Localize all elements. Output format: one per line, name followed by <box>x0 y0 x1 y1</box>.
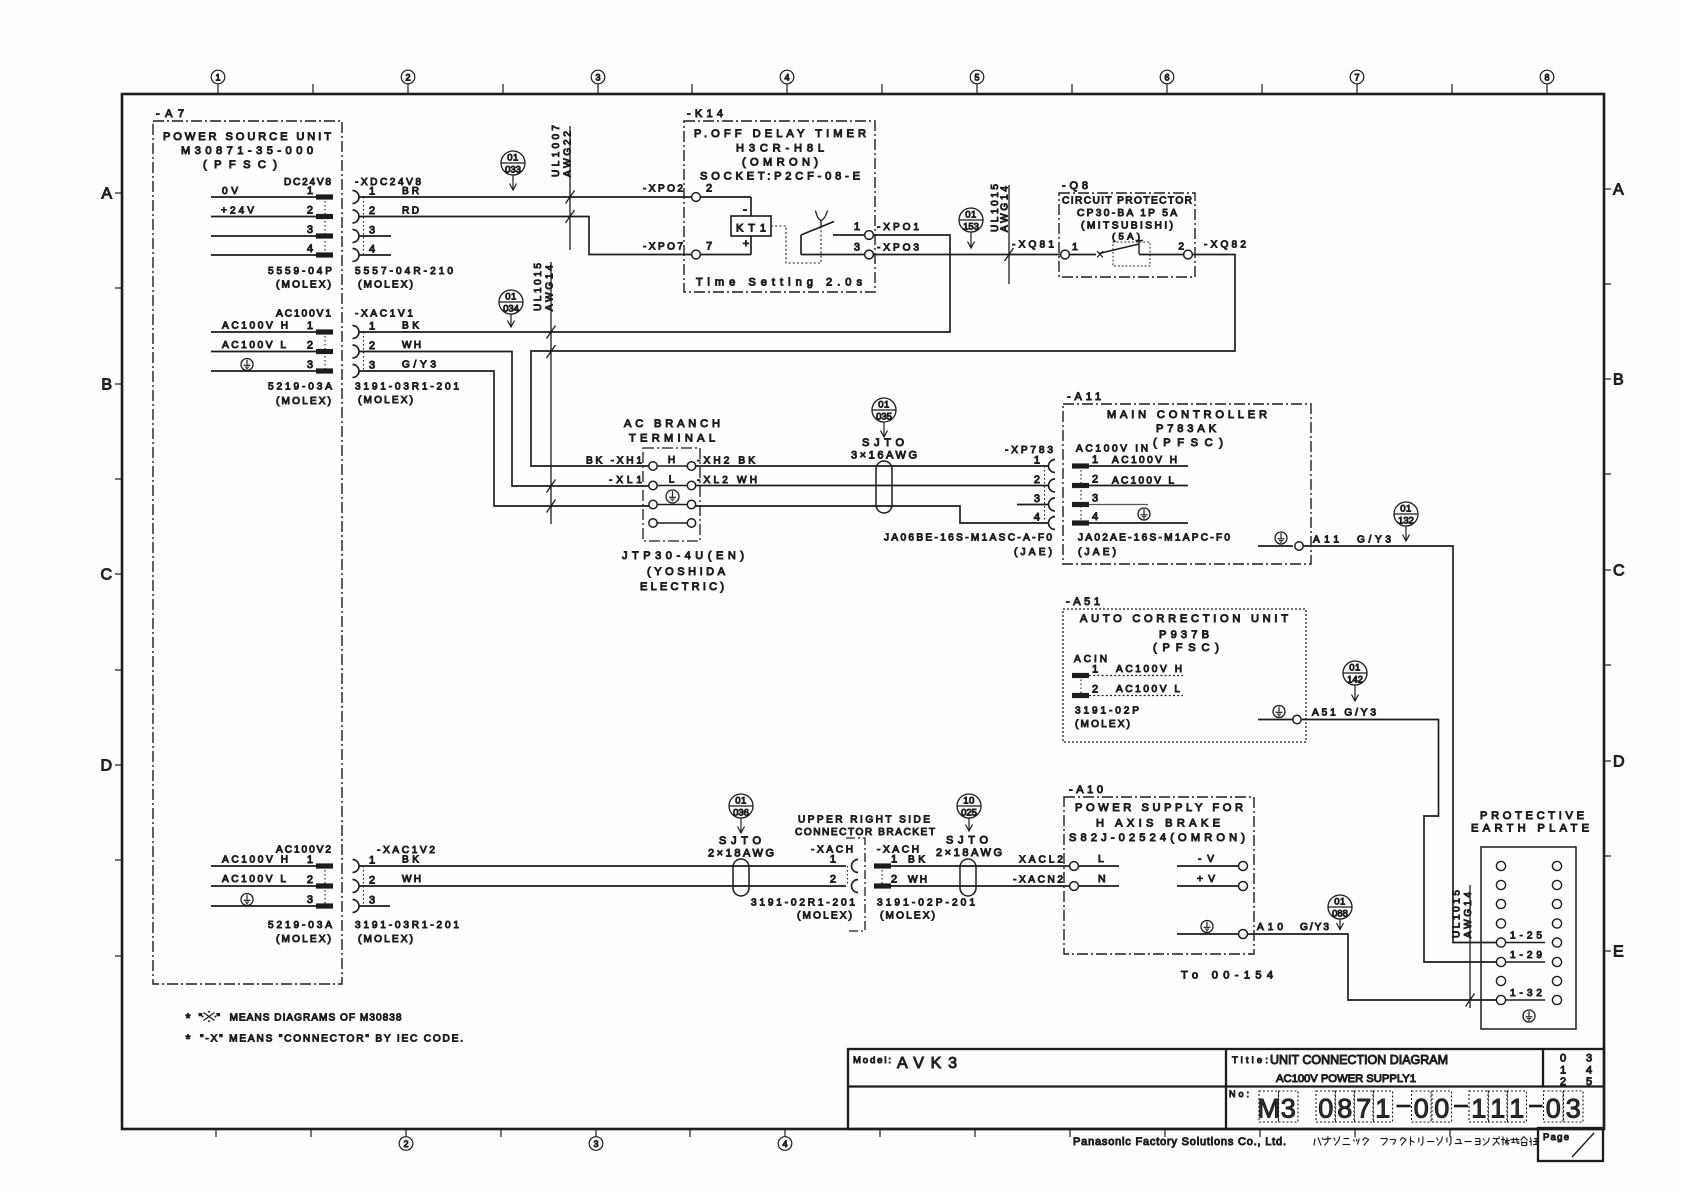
svg-text:-XQ81: -XQ81 <box>1012 240 1054 251</box>
K14 pin 2 terminal (-XPO2) <box>643 183 712 202</box>
unit A51 AUTO CORRECTION UNIT box <box>1063 596 1306 742</box>
svg-text:CIRCUIT PROTECTOR: CIRCUIT PROTECTOR <box>1062 196 1192 207</box>
svg-text:G/Y3: G/Y3 <box>402 360 436 371</box>
svg-text:AC100V POWER SUPPLY1: AC100V POWER SUPPLY1 <box>1276 1073 1416 1085</box>
svg-text:1: 1 <box>307 320 313 332</box>
top border zone tick marks and circled column numbers <box>211 70 1554 94</box>
svg-text:3: 3 <box>369 895 375 907</box>
Q8 terminal 2 (-XQ82) <box>1178 240 1246 259</box>
svg-text:01: 01 <box>1349 663 1361 674</box>
svg-text:SOCKET:P2CF-08-E: SOCKET:P2CF-08-E <box>700 171 860 183</box>
svg-text:025: 025 <box>961 808 977 819</box>
earth plate terminal 1-32 <box>1506 988 1545 1000</box>
wire XACL2 from -XACH pin1 to A10 L <box>891 865 1069 867</box>
svg-text:CP30-BA 1P 5A: CP30-BA 1P 5A <box>1077 208 1177 219</box>
wire A10 G/Y3 to earth plate 1-32 <box>1248 934 1497 1000</box>
connector AC100V2 (A7 side, 5219-03A MOLEX) <box>211 845 333 946</box>
svg-text:2: 2 <box>830 874 836 886</box>
svg-text:UNIT CONNECTION DIAGRAM: UNIT CONNECTION DIAGRAM <box>1270 1053 1448 1067</box>
svg-text:0: 0 <box>1546 1094 1561 1124</box>
svg-text:2: 2 <box>369 205 375 217</box>
ground symbol on A11 pin 4 <box>1138 508 1150 520</box>
reference balloon 01/035 <box>872 398 896 437</box>
svg-text:*: * <box>186 1032 191 1047</box>
svg-text:-A7: -A7 <box>156 108 186 120</box>
A11 connector JA02AE-16S-M1APC-F0 pins <box>1072 454 1230 558</box>
svg-text:MEANS DIAGRAMS OF M30838: MEANS DIAGRAMS OF M30838 <box>230 1013 402 1024</box>
svg-text:2: 2 <box>405 73 410 83</box>
svg-text:D: D <box>100 758 112 775</box>
svg-text:B: B <box>1613 372 1624 389</box>
svg-text:(MOLEX): (MOLEX) <box>276 396 331 407</box>
unit A10 POWER SUPPLY FOR H AXIS BRAKE box <box>1064 784 1254 954</box>
svg-text:01: 01 <box>735 796 747 807</box>
connector AC100V1 part labels <box>268 382 332 408</box>
cable SJTO 3x16AWG oval <box>851 437 917 513</box>
svg-text:AC100V H: AC100V H <box>1116 664 1182 675</box>
svg-text:10: 10 <box>963 796 975 807</box>
reference balloon 01/088 <box>1328 895 1352 930</box>
connector -XACH female (bracket side, 3191-02R1-201 MOLEX) <box>751 845 858 922</box>
svg-text:1: 1 <box>369 321 375 333</box>
reference balloon 01/036 <box>729 794 753 833</box>
svg-text:3: 3 <box>369 360 375 372</box>
svg-text:2: 2 <box>369 875 375 887</box>
svg-text:-XPO1: -XPO1 <box>877 222 919 233</box>
company name <box>1073 1136 1286 1148</box>
A10 input terminal L (XACL2) <box>1070 853 1119 870</box>
svg-text:01: 01 <box>1400 504 1412 515</box>
reference balloon 01/033 <box>501 151 525 190</box>
svg-text:AC100V1: AC100V1 <box>276 309 331 320</box>
unit A7 POWER SOURCE UNIT box <box>153 108 342 984</box>
wire WH from -XAC1V2 pin2 to bracket -XACH pin2 <box>359 885 846 887</box>
svg-text:4: 4 <box>1034 512 1040 524</box>
title block <box>848 1049 1604 1129</box>
svg-text:1: 1 <box>1375 1094 1390 1124</box>
svg-text:H: H <box>668 455 675 466</box>
svg-text:2: 2 <box>1178 242 1184 253</box>
svg-text:8: 8 <box>1337 1094 1352 1124</box>
svg-text:033: 033 <box>505 165 521 176</box>
svg-text:AC100V L: AC100V L <box>1116 684 1180 695</box>
reference balloon 01/153 <box>959 208 983 248</box>
svg-text:2: 2 <box>307 340 313 352</box>
svg-text:2: 2 <box>706 183 712 195</box>
KT1 actuating dotted link <box>771 226 821 263</box>
connector -XAC1V2 (harness side, 3191-03R1-201 MOLEX) <box>353 845 460 945</box>
wire return from -XQ82 to branch terminal -XH1 <box>531 255 1235 467</box>
svg-text:B: B <box>101 377 112 394</box>
svg-text:M: M <box>1258 1094 1281 1124</box>
svg-text:C: C <box>1613 563 1625 580</box>
reference balloon 01/034 <box>499 290 523 327</box>
svg-text:To 00-154: To 00-154 <box>1181 970 1273 982</box>
svg-text:EARTH PLATE: EARTH PLATE <box>1471 823 1589 835</box>
A10 output terminal -V <box>1177 854 1248 871</box>
svg-text:7: 7 <box>706 241 712 253</box>
svg-text:5: 5 <box>1586 1076 1592 1088</box>
svg-text:3: 3 <box>1092 493 1098 505</box>
reference balloon 10/025 <box>957 794 981 831</box>
svg-text:AC100V L: AC100V L <box>1112 476 1174 487</box>
unit A11 MAIN CONTROLLER box <box>1063 391 1311 564</box>
svg-text:4: 4 <box>307 243 313 255</box>
cable leader UL1015 AWG14 (top) <box>990 184 1014 284</box>
svg-text:2: 2 <box>307 874 313 886</box>
svg-text:2: 2 <box>369 340 375 352</box>
svg-text:AC100V H: AC100V H <box>222 855 288 866</box>
cable leader UL1015 AWG14 (earth plate) <box>1452 885 1475 1008</box>
svg-text:1: 1 <box>215 73 220 83</box>
svg-text:(OMRON): (OMRON) <box>742 157 818 169</box>
svg-text:WH: WH <box>908 875 927 886</box>
earth plate terminal 1-29 <box>1506 950 1545 962</box>
svg-text:E: E <box>1613 944 1624 961</box>
svg-text:3: 3 <box>1586 1053 1592 1065</box>
svg-text:3: 3 <box>307 894 313 906</box>
svg-text:AC100V L: AC100V L <box>222 874 286 885</box>
K14 pin 3 terminal (-XPO3) <box>854 242 920 259</box>
svg-text:1: 1 <box>1034 455 1040 467</box>
svg-text:1: 1 <box>307 854 313 866</box>
svg-text:A10: A10 <box>1257 922 1283 933</box>
drawing frame border <box>122 94 1604 1129</box>
ground symbol on AC100V1 pin 3 <box>241 359 253 371</box>
wire -XL2 WH from branch terminal to -XP783 pin2 <box>696 485 1049 487</box>
svg-text:G/Y3: G/Y3 <box>1300 922 1329 933</box>
node label -XACN2 <box>1013 875 1063 886</box>
svg-text:1: 1 <box>830 854 836 866</box>
reference balloon 01/142 <box>1343 661 1367 701</box>
svg-text:Panasonic Factory Solutions Co: Panasonic Factory Solutions Co., Ltd. <box>1073 1136 1286 1148</box>
ground symbol in branch terminal <box>666 490 679 503</box>
A11 protective earth pigtail terminal <box>1258 532 1391 550</box>
svg-text:3: 3 <box>369 225 375 237</box>
svg-text:1: 1 <box>369 855 375 867</box>
right border row letters A-E with ticks <box>1604 182 1625 961</box>
title block drawing number cell <box>1229 1089 1583 1124</box>
svg-text:AC100V L: AC100V L <box>222 340 286 351</box>
ground symbol on AC100V2 pin 3 <box>241 894 253 906</box>
note: asterisk legends <box>186 1011 402 1026</box>
svg-text:153: 153 <box>963 222 979 233</box>
wire A11 G/Y3 to earth plate 1-25 <box>1303 546 1497 943</box>
wire -XACN2 from -XACH pin2 to A10 N <box>891 885 1069 887</box>
svg-text:-XQ82: -XQ82 <box>1204 240 1246 251</box>
svg-text:XACL2: XACL2 <box>1019 855 1063 866</box>
connector -XP783 (JA06BE-16S-M1ASC-A-F0 JAE) <box>884 445 1055 558</box>
title block revision cell digits <box>1560 1053 1592 1089</box>
svg-text:CONNECTOR BRACKET: CONNECTOR BRACKET <box>795 827 935 838</box>
svg-text:142: 142 <box>1347 675 1363 686</box>
svg-text:POWER SUPPLY FOR: POWER SUPPLY FOR <box>1075 802 1243 814</box>
svg-text:AC100V H: AC100V H <box>222 321 288 332</box>
cable leader UL1015 AWG14 (left) <box>533 262 556 524</box>
svg-text:-A10: -A10 <box>1069 784 1105 796</box>
reference balloon 01/132 <box>1394 502 1418 541</box>
svg-text:SJTO: SJTO <box>862 437 906 449</box>
svg-text:4: 4 <box>1586 1065 1592 1077</box>
UPPER RIGHT SIDE CONNECTOR BRACKET boundary <box>795 815 935 932</box>
svg-text:2: 2 <box>403 1139 408 1149</box>
svg-text:3: 3 <box>593 1139 598 1149</box>
svg-text:2: 2 <box>1092 474 1098 486</box>
svg-text:2: 2 <box>1092 684 1098 696</box>
svg-text:1: 1 <box>1092 664 1098 676</box>
svg-text:-XPO3: -XPO3 <box>877 243 919 254</box>
svg-text:1: 1 <box>1560 1065 1566 1077</box>
svg-text:3: 3 <box>1281 1094 1296 1124</box>
connector -XAC1V1 (harness side, 3191-03R1-201 MOLEX) <box>353 309 460 407</box>
svg-text:": " <box>217 1013 221 1024</box>
svg-text:3: 3 <box>595 73 600 83</box>
wire -XH2 BK from branch terminal to -XP783 pin1 <box>696 465 1049 467</box>
connector -XACH male (3191-02P-201 MOLEX) <box>874 845 975 922</box>
svg-text:01: 01 <box>1334 897 1346 908</box>
svg-text:+: + <box>743 238 749 250</box>
svg-text:(MOLEX): (MOLEX) <box>276 280 331 291</box>
left border row letters A-D with ticks <box>100 186 122 957</box>
svg-text:1: 1 <box>1092 454 1098 466</box>
svg-text:1-32: 1-32 <box>1510 988 1542 999</box>
cable SJTO 2x18AWG oval (right) <box>936 835 1002 897</box>
svg-text:0: 0 <box>1318 1094 1333 1124</box>
svg-text:Time Setting 2.0s: Time Setting 2.0s <box>696 277 862 289</box>
svg-text:01: 01 <box>878 400 890 411</box>
svg-text:3: 3 <box>1034 493 1040 505</box>
svg-text:-A11: -A11 <box>1067 391 1103 403</box>
svg-text:2: 2 <box>1560 1076 1566 1088</box>
svg-text:01: 01 <box>505 292 517 303</box>
svg-text:N: N <box>1098 873 1106 885</box>
svg-text:6: 6 <box>1164 73 1169 83</box>
cable SJTO 2x18AWG oval (left) <box>708 835 774 896</box>
svg-text:L: L <box>1098 853 1104 865</box>
svg-text:0: 0 <box>1414 1094 1429 1124</box>
timer coil KT1 <box>701 197 771 255</box>
svg-text:No:: No: <box>1229 1089 1249 1099</box>
node label XACL2 <box>1019 855 1063 866</box>
svg-text:0: 0 <box>1560 1053 1566 1065</box>
svg-text:G/Y3: G/Y3 <box>1357 535 1391 546</box>
wire WH AC100V L from -XAC1V1 pin2 to branch terminal -XL1 <box>359 352 649 487</box>
wire A51 G/Y3 to earth plate 1-29 <box>1302 720 1497 963</box>
title block title cell <box>1232 1053 1448 1085</box>
svg-text:": " <box>199 1013 203 1024</box>
node label -XL1 <box>609 475 642 486</box>
svg-text:8: 8 <box>1544 73 1549 83</box>
svg-text:2: 2 <box>1034 474 1040 486</box>
PROTECTIVE EARTH PLATE <box>1471 810 1589 1029</box>
svg-text:AC100V IN: AC100V IN <box>1076 444 1148 455</box>
svg-text:01: 01 <box>507 153 519 164</box>
svg-text:132: 132 <box>1398 516 1414 527</box>
svg-text:ELECTRIC): ELECTRIC) <box>640 581 724 593</box>
A51 protective earth pigtail terminal <box>1258 706 1376 724</box>
relay K14 P.OFF DELAY TIMER box <box>684 108 875 292</box>
cable leader UL1007 AWG22 <box>551 125 575 250</box>
svg-text:1: 1 <box>854 221 860 233</box>
svg-text:1: 1 <box>307 185 313 197</box>
wire G/Y from branch terminal earth to -XP783 pin4 <box>696 506 1049 523</box>
A10 output terminal +V <box>1177 874 1248 891</box>
note: -X means connector <box>186 1032 464 1047</box>
note To 00-154 <box>1181 970 1273 982</box>
K14 pin 1 terminal (-XPO1) <box>854 221 920 239</box>
svg-text:3: 3 <box>854 242 860 254</box>
svg-text:4: 4 <box>782 1139 787 1149</box>
svg-text:0: 0 <box>1434 1094 1449 1124</box>
svg-text:D: D <box>1613 754 1625 771</box>
svg-text:1-25: 1-25 <box>1510 931 1542 942</box>
svg-text:PROTECTIVE: PROTECTIVE <box>1480 810 1584 822</box>
Q8 breaker contact with 5A thermal element <box>1070 232 1183 267</box>
svg-text:A: A <box>101 186 112 203</box>
svg-text:(MOLEX): (MOLEX) <box>1075 719 1130 730</box>
svg-text:Model:: Model: <box>853 1055 891 1066</box>
svg-text:(MITSUBISHI): (MITSUBISHI) <box>1081 221 1173 232</box>
svg-text:(MOLEX): (MOLEX) <box>358 934 413 945</box>
Q8 terminal 1 (-XQ81) <box>1012 240 1078 259</box>
svg-text:A11: A11 <box>1313 535 1339 546</box>
svg-text:"-X" MEANS "CONNECTOR" BY IEC: "-X" MEANS "CONNECTOR" BY IEC CODE. <box>200 1034 463 1045</box>
delayed contact symbol in K14 <box>801 211 864 255</box>
terminal block AC BRANCH TERMINAL JTP30-4U <box>622 418 744 593</box>
svg-text:4: 4 <box>369 244 375 256</box>
svg-text:1: 1 <box>1490 1094 1505 1124</box>
svg-text:-XPO2: -XPO2 <box>643 184 683 195</box>
A10 input terminal N (-XACN2) <box>1070 873 1119 890</box>
svg-text:4: 4 <box>1092 511 1098 523</box>
svg-text:-XAC1V1: -XAC1V1 <box>355 309 413 320</box>
wire RD from -XDC24V8 pin2 to -XPO7 <box>359 217 691 255</box>
svg-text:*: * <box>186 1011 191 1026</box>
svg-text:WH: WH <box>402 340 421 351</box>
svg-text:SJTO: SJTO <box>719 835 763 847</box>
ground symbol in earth plate <box>1523 1010 1535 1022</box>
svg-text:P.OFF DELAY TIMER: P.OFF DELAY TIMER <box>694 128 866 140</box>
svg-text:-: - <box>743 202 747 216</box>
svg-text:(MOLEX): (MOLEX) <box>797 911 852 922</box>
svg-text:035: 035 <box>876 412 892 423</box>
svg-text:2: 2 <box>307 205 313 217</box>
svg-text:3: 3 <box>307 359 313 371</box>
title block model cell <box>853 1055 957 1072</box>
svg-text:5: 5 <box>974 73 979 83</box>
wire BK AC100V H from -XAC1V1 pin1 up to -XPO1 <box>359 235 950 332</box>
wire BK from -XAC1V2 pin1 to bracket -XACH pin1 <box>359 865 846 867</box>
svg-text:034: 034 <box>503 304 519 315</box>
company name (Japanese) drawn as strokes <box>1314 1137 1538 1146</box>
A51 connector 3191-02P MOLEX pins <box>1072 664 1183 731</box>
svg-text:01: 01 <box>965 210 977 221</box>
svg-text:1: 1 <box>1509 1094 1524 1124</box>
svg-text:AC BRANCH: AC BRANCH <box>624 418 720 430</box>
wire -XPO3 to -XQ81 <box>874 254 1060 256</box>
svg-text:A51 G/Y3: A51 G/Y3 <box>1312 708 1376 719</box>
svg-text:-XPO7: -XPO7 <box>643 242 683 253</box>
svg-text:L: L <box>669 475 675 486</box>
connector DC24V8 (A7 side, 5559-04P MOLEX) <box>211 177 333 291</box>
svg-text:WH: WH <box>402 874 421 885</box>
svg-text:(MOLEX): (MOLEX) <box>880 911 935 922</box>
svg-text:3: 3 <box>307 224 313 236</box>
svg-text:(MOLEX): (MOLEX) <box>358 280 413 291</box>
stub wire -XP783 pin3 <box>1017 504 1049 506</box>
svg-text:A: A <box>1613 182 1624 199</box>
svg-text:ACIN: ACIN <box>1074 654 1107 665</box>
svg-text:JA06BE-16S-M1ASC-A-F0: JA06BE-16S-M1ASC-A-F0 <box>884 533 1052 544</box>
breaker Q8 CIRCUIT PROTECTOR box <box>1059 180 1195 277</box>
svg-text:MAIN CONTROLLER: MAIN CONTROLLER <box>1107 409 1267 421</box>
wire G/Y3 from -XAC1V1 pin3 to branch terminal earth <box>359 371 649 506</box>
svg-text:+24V: +24V <box>221 206 254 217</box>
svg-text:088: 088 <box>1332 909 1348 920</box>
wire BR from -XDC24V8 pin1 to -XPO2 <box>359 196 691 198</box>
svg-text:-A51: -A51 <box>1066 596 1102 608</box>
title block page cell <box>1538 1128 1603 1161</box>
svg-text:(MOLEX): (MOLEX) <box>358 395 413 406</box>
svg-text:-Q8: -Q8 <box>1062 180 1090 192</box>
svg-text:7: 7 <box>1354 73 1359 83</box>
node label BK -XH1 <box>586 456 642 467</box>
bottom border zone tick marks and circled column numbers <box>216 1129 1450 1150</box>
K14 pin 7 terminal (-XPO7) <box>643 241 712 259</box>
node label -XL2 WH <box>697 475 757 486</box>
svg-text:H AXIS BRAKE: H AXIS BRAKE <box>1096 818 1220 830</box>
svg-text:1: 1 <box>1072 241 1078 253</box>
svg-text:SJTO: SJTO <box>946 835 990 847</box>
svg-text:C: C <box>100 567 112 584</box>
svg-text:KT1: KT1 <box>736 223 766 235</box>
svg-text:H3CR-H8L: H3CR-H8L <box>736 143 824 155</box>
svg-text:1-29: 1-29 <box>1510 950 1542 961</box>
connector -XDC24V8 (harness side, 5557-04R-210 MOLEX) <box>353 177 454 291</box>
connector AC100V1 (A7 side, 5219-03A MOLEX) <box>211 309 333 374</box>
svg-text:TERMINAL: TERMINAL <box>629 433 715 445</box>
svg-text:036: 036 <box>733 808 749 819</box>
svg-text:1: 1 <box>1471 1094 1486 1124</box>
A10 earth terminal <box>1177 921 1329 939</box>
svg-text:1: 1 <box>891 854 897 866</box>
svg-text:(MOLEX): (MOLEX) <box>276 934 331 945</box>
svg-text:3: 3 <box>1566 1094 1581 1124</box>
earth plate terminal 1-25 <box>1506 931 1545 943</box>
node label -XH2 BK <box>697 456 755 467</box>
svg-text:1: 1 <box>369 186 375 198</box>
svg-text:4: 4 <box>784 73 789 83</box>
svg-text:2: 2 <box>891 874 897 886</box>
svg-text:7: 7 <box>1356 1094 1371 1124</box>
